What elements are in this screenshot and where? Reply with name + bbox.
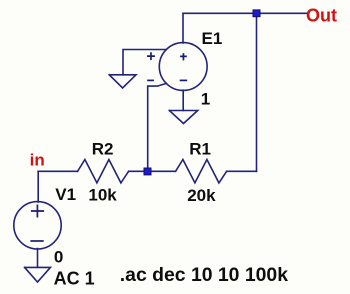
wire right vertical (Out to R1) (256, 13, 258, 171)
svg-text:20k: 20k (187, 186, 216, 205)
wire top horizontal Out net (183, 12, 307, 14)
wire in-node to R2 (38, 170, 77, 172)
svg-text:.ac dec 10 10 100k: .ac dec 10 10 100k (120, 264, 288, 286)
wire V1 bottom to ground (37, 249, 39, 268)
svg-text:AC 1: AC 1 (54, 268, 95, 288)
svg-text:0: 0 (54, 248, 63, 267)
V1 plus mark inside (31, 205, 44, 218)
junction node Out wire (253, 10, 260, 17)
E1 control minus mark (147, 79, 154, 81)
ground under E1 (169, 111, 197, 124)
resistor R2 body (78, 160, 129, 183)
wire E1 minus-control down to junction (148, 83, 167, 171)
wire E1 top vertical (182, 13, 184, 43)
wire R2 to junction to R1 (129, 170, 176, 172)
wire in-node down to V1 (37, 171, 39, 202)
V1 minus mark inside (30, 240, 43, 242)
svg-text:R1: R1 (189, 140, 211, 159)
ground under E1 plus-control (109, 75, 136, 88)
svg-text:10k: 10k (88, 185, 117, 204)
wire E1 bottom to ground (182, 90, 184, 110)
svg-text:R2: R2 (92, 140, 114, 159)
E1 minus mark inside (180, 79, 188, 81)
ground under V1 (25, 267, 51, 282)
svg-text:1: 1 (201, 89, 210, 108)
svg-text:V1: V1 (55, 185, 76, 204)
wire R1 to right vertical (227, 170, 257, 172)
svg-text:E1: E1 (202, 29, 223, 48)
wire E1 plus-control to ground (123, 50, 166, 75)
svg-text:in: in (30, 151, 45, 170)
dependent source E1 circle (159, 43, 207, 91)
svg-text:Out: Out (306, 5, 337, 25)
voltage source V1 circle (14, 202, 61, 249)
E1 control plus mark (147, 52, 155, 60)
resistor R1 body (176, 160, 227, 183)
junction node R2/R1/E1- (144, 168, 151, 175)
E1 plus mark inside (180, 53, 187, 60)
